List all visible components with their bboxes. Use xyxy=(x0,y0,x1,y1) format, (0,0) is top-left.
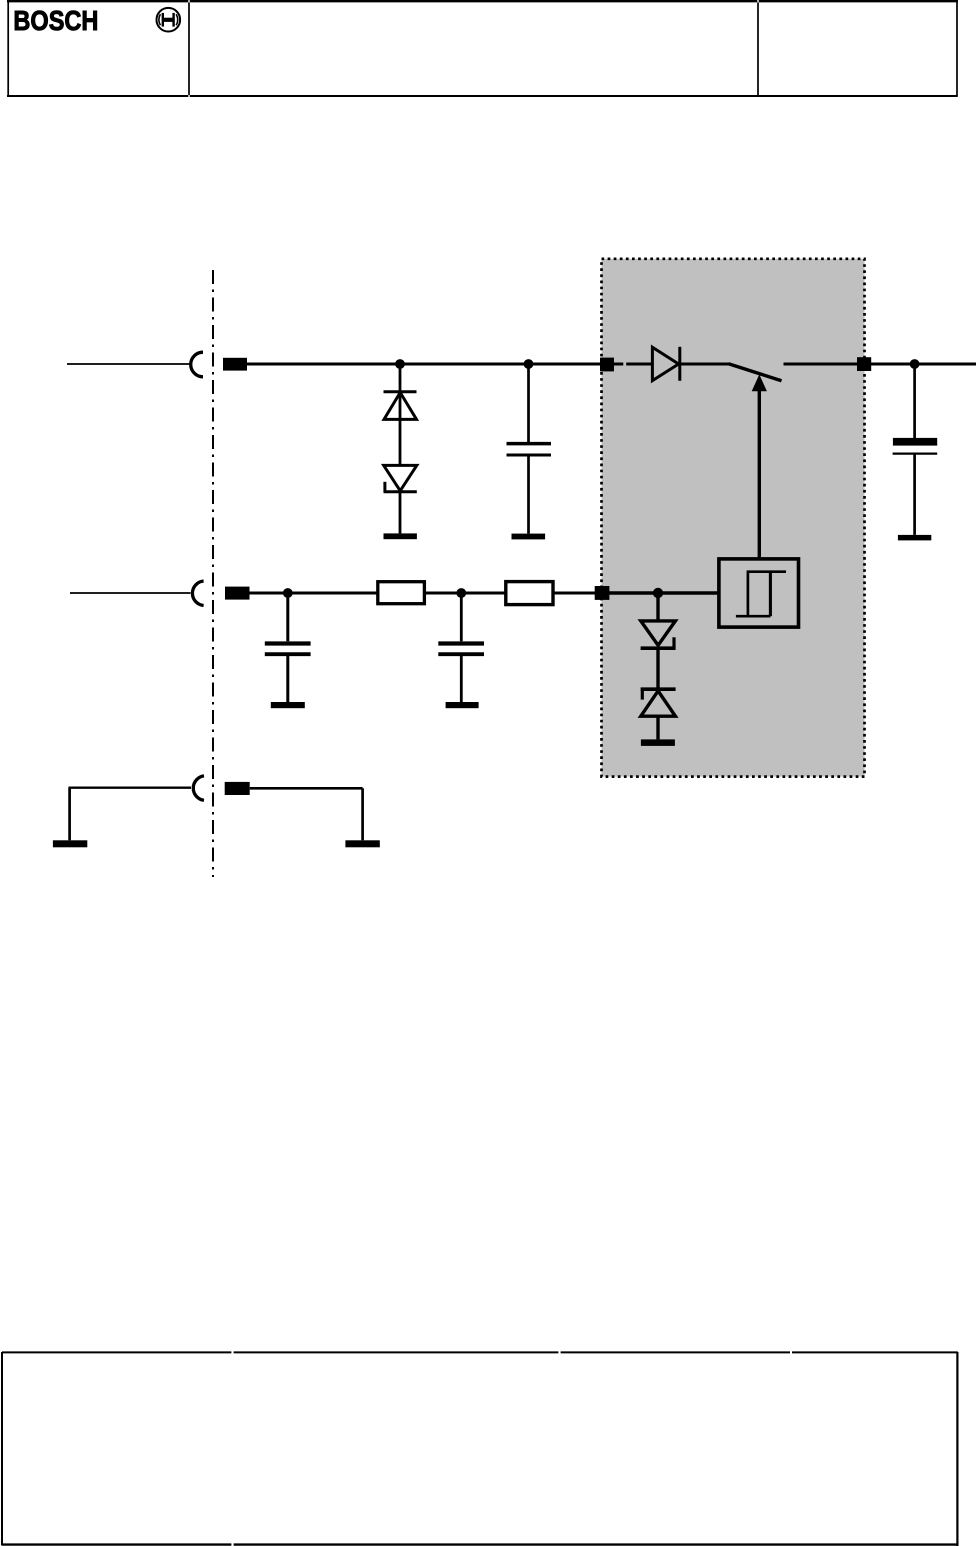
wire node row2-A to capacitor C3 xyxy=(286,593,289,641)
terminal square row2 ASIC input xyxy=(595,586,610,600)
Bosch emblem xyxy=(157,8,181,32)
Schmitt trigger U1 box xyxy=(719,559,799,627)
zener diode ZD2 xyxy=(641,689,676,716)
footer table top border xyxy=(2,1351,958,1353)
wire to diode D3 xyxy=(626,363,652,366)
footer table left border xyxy=(1,1352,3,1545)
ground bar row3 ecu xyxy=(345,840,379,847)
wire C3 to ground xyxy=(286,656,289,702)
wire C2 to ground xyxy=(913,454,916,535)
connector pin socket row1 xyxy=(191,352,203,377)
node row2-A xyxy=(283,588,293,598)
wire row1 main xyxy=(247,363,601,366)
wire row2 harness side xyxy=(70,592,191,594)
wire D1 to D2 xyxy=(399,392,402,466)
resistor R1 xyxy=(378,582,425,604)
terminal square row1 ASIC output xyxy=(857,357,871,371)
terminal pin row3 xyxy=(225,782,250,795)
wire row2 inside ASIC xyxy=(609,591,718,594)
ASIC shaded block xyxy=(602,259,865,777)
wire node row2-B to capacitor C4 xyxy=(460,593,463,641)
wire row2 main xyxy=(249,592,601,595)
ground bar row3 harness xyxy=(53,840,87,847)
wire D2 to ground xyxy=(399,492,402,533)
zener diode ZD1 xyxy=(641,621,676,648)
svg-text:BOSCH: BOSCH xyxy=(13,5,98,36)
ground bar under ZD2 xyxy=(641,739,675,746)
wire switch to output terminal xyxy=(784,363,858,366)
ground bar under C2 xyxy=(898,535,931,541)
capacitor C3 xyxy=(265,644,311,655)
ground bar under D2 xyxy=(384,533,417,539)
Schmitt trigger U1 hysteresis symbol xyxy=(736,572,786,617)
capacitor C2 polarized xyxy=(893,438,938,454)
wire C4 to ground xyxy=(460,656,463,702)
header divider column 1/2 xyxy=(188,3,190,96)
wire node B to capacitor C1 xyxy=(527,364,530,442)
capacitor C1 xyxy=(507,444,552,455)
header table frame xyxy=(7,1,958,96)
wire D3 to switch xyxy=(681,363,730,366)
header divider column 2/3 xyxy=(757,3,759,96)
wire node C to capacitor C2 xyxy=(913,364,916,438)
connector pin socket row3 xyxy=(193,776,204,800)
wire to clamp diodes xyxy=(399,364,402,392)
switch actuator shaft xyxy=(758,390,761,559)
connector pin socket row2 xyxy=(192,581,203,606)
node row1-C xyxy=(910,359,920,369)
diode D1 xyxy=(384,392,417,420)
wire node row2-C to zener ZD1 xyxy=(656,593,659,621)
wire row1 harness side xyxy=(67,363,191,365)
wire row3 ecu side xyxy=(250,787,363,790)
resistor R2 xyxy=(506,582,553,605)
wire into ASIC xyxy=(614,363,623,366)
wire ZD1 to ZD2 xyxy=(656,648,659,688)
capacitor C4 xyxy=(438,644,484,655)
ground drop wire row3 ecu xyxy=(361,788,364,840)
node row2-B xyxy=(456,588,466,598)
node row1-A xyxy=(395,359,405,369)
node row1-B xyxy=(524,359,534,369)
connector boundary dash-dot line xyxy=(212,270,214,877)
wire row3 harness side xyxy=(69,787,192,789)
switch S1 blade xyxy=(729,364,782,381)
ground bar under C4 xyxy=(446,702,479,708)
ground drop wire row3 harness xyxy=(68,788,71,841)
switch actuator arrow head xyxy=(752,374,767,391)
terminal pin row1 xyxy=(223,358,247,371)
terminal square row1 ASIC input xyxy=(600,358,614,372)
wire ZD2 to ground xyxy=(656,716,659,739)
zener diode D2 xyxy=(384,465,417,491)
ground bar under C3 xyxy=(271,702,305,708)
ground bar under C1 xyxy=(512,534,546,540)
footer table bottom border xyxy=(2,1543,959,1545)
node row2-C xyxy=(653,588,663,598)
terminal pin row2 xyxy=(225,587,250,600)
wire C1 to ground xyxy=(527,456,530,534)
diode D3 series xyxy=(652,347,679,381)
footer table right border xyxy=(956,1352,958,1546)
wire row1 output xyxy=(871,363,976,366)
